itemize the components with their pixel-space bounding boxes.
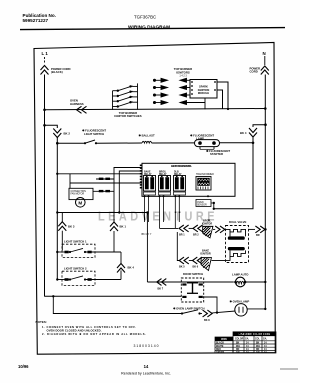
svg-text:WHITE: WHITE (216, 346, 224, 348)
connector chevron row1 a (179, 225, 189, 232)
header rule (20, 28, 285, 30)
svg-text:LINE WIRE COLOR CODE: LINE WIRE COLOR CODE (239, 332, 271, 336)
svg-text:LIGHT SWITCH: LIGHT SWITCH (84, 132, 104, 136)
svg-text:NOTES:: NOTES: (36, 320, 47, 324)
svg-text:RD: RD (236, 349, 240, 351)
EOC bottom terminal dots (144, 195, 210, 197)
connector chevron BK4b (120, 270, 122, 279)
diagram border frame (34, 43, 275, 355)
wire bake ignitor to valve (212, 260, 226, 262)
svg-text:RED: RED (216, 349, 221, 351)
convection fan motor box (69, 188, 93, 199)
svg-text:BK GY Y: BK GY Y (142, 233, 152, 236)
wire spark module to N bus (217, 82, 228, 110)
oven sensor (196, 200, 211, 207)
connector chevron lamp row (157, 279, 167, 286)
svg-text:FAN MOTOR: FAN MOTOR (71, 193, 85, 196)
svg-text:BK: BK (256, 343, 260, 345)
connector chevron BK4 (249, 128, 257, 137)
wire bottom feeder (45, 295, 182, 297)
svg-text:SENSOR: SENSOR (197, 205, 207, 207)
svg-text:BK 4: BK 4 (128, 266, 135, 270)
wire oven lamp to N (247, 308, 265, 310)
svg-text:BK: BK (236, 343, 240, 345)
connector chevron oven lamp (203, 310, 213, 317)
wire lamp out to BK2 tee (220, 142, 254, 144)
svg-text:LIGHT SWITCH 2: LIGHT SWITCH 2 (64, 267, 87, 271)
svg-text:✱ BALLAST: ✱ BALLAST (139, 134, 155, 138)
svg-text:✱ OVEN LAMP SWITCH: ✱ OVEN LAMP SWITCH (173, 307, 205, 311)
svg-text:OVEN DOOR CLOSED AND UNLOC: OVEN DOOR CLOSED AND UNLOCKED. (47, 328, 102, 332)
svg-text:LAMP AUTO: LAMP AUTO (232, 273, 249, 277)
svg-text:BK 6: BK 6 (193, 266, 199, 269)
svg-text:ELECTRONIC OVEN CONTROL: ELECTRONIC OVEN CONTROL (171, 165, 192, 168)
svg-text:WH: WH (236, 346, 240, 348)
svg-text:GA.: GA. (245, 338, 249, 341)
EOC left edge pin strip (140, 165, 142, 189)
svg-text:✱ OVEN LAMP: ✱ OVEN LAMP (230, 300, 250, 304)
svg-text:2. DIAGRAMS WITH ✱ DO NOT: 2. DIAGRAMS WITH ✱ DO NOT APPEAR IN ALL … (42, 332, 146, 336)
svg-text:WIRING DIAGRAM: WIRING DIAGRAM (128, 24, 170, 30)
svg-text:RD: RD (256, 349, 260, 351)
top burner ignitor electrodes (153, 78, 190, 104)
wire lamp to N (245, 281, 265, 283)
connector chevron oven bus (77, 106, 87, 113)
svg-text:BK 8: BK 8 (204, 319, 210, 322)
svg-text:COL: COL (255, 339, 260, 341)
svg-text:BLACK: BLACK (216, 342, 224, 345)
wire spark module lower to bus (217, 90, 223, 109)
svg-text:5995271227: 5995271227 (23, 18, 49, 23)
connector chevron L1 power cord (41, 66, 49, 75)
svg-text:BK 4: BK 4 (240, 131, 247, 135)
convection fan wires to EOC (57, 173, 141, 175)
motor M1 (76, 198, 86, 208)
connector chevron row1 d (255, 226, 265, 233)
wire LS2 out (85, 279, 121, 281)
wire row1 to N (249, 228, 256, 230)
EOC relay drop wires (145, 196, 180, 228)
connector chevron row1 b (193, 225, 203, 232)
svg-text:BK 7: BK 7 (158, 288, 164, 291)
wire lamp row (147, 281, 233, 283)
svg-text:WH: WH (256, 346, 260, 348)
electronic oven control box (142, 163, 235, 196)
svg-text:(BLACK): (BLACK) (51, 70, 63, 74)
connector chevron BK3 (61, 213, 63, 222)
wire main L1 bus (45, 109, 266, 110)
wire horizontal y212.5 (57, 212, 147, 214)
svg-text:MODULE: MODULE (198, 91, 210, 95)
svg-text:DUAL VALVE: DUAL VALVE (229, 220, 247, 224)
top burner ignitor switch bank (113, 83, 138, 110)
svg-text:GREEN: GREEN (216, 352, 225, 354)
wire chevron to fluor row junction (56, 138, 58, 144)
svg-text:N: N (263, 51, 266, 56)
connector chevron row1 c (215, 226, 225, 233)
svg-text:GN: GN (236, 352, 240, 354)
svg-text:10/96: 10/96 (18, 364, 29, 369)
svg-text:1 4 2 3: 1 4 2 3 (179, 75, 187, 78)
svg-text:STARTER: STARTER (210, 152, 223, 156)
bake valve solenoid (228, 247, 245, 250)
svg-text:DOOR SWITCH: DOOR SWITCH (183, 272, 203, 276)
svg-text:IGNITOR: IGNITOR (200, 252, 211, 255)
svg-text:318003140: 318003140 (134, 344, 160, 348)
svg-text:IGNITOR: IGNITOR (202, 223, 213, 226)
junction L1 to fluorescent branch (43, 124, 46, 127)
wire spark module bottom to bus (187, 102, 206, 104)
fluorescent light switch S2 (57, 142, 84, 144)
svg-text:L 1: L 1 (42, 51, 49, 56)
svg-text:BR 2: BR 2 (193, 234, 199, 237)
wire N jog to BK4 chevron (253, 125, 266, 127)
connector chevron BK2 fluorescent (53, 129, 61, 138)
connector chevron row2 b (193, 257, 203, 264)
wire to ballast (96, 142, 142, 144)
wire EOC pin to BK1 drop (114, 168, 142, 223)
wire L1 spine (44, 75, 46, 297)
connector chevron BK1 (110, 222, 118, 231)
svg-text:LEADVENTURE: LEADVENTURE (98, 210, 218, 224)
broil valve solenoid (226, 229, 246, 236)
svg-text:WIRE: WIRE (221, 339, 227, 341)
wire lamp feeder vertical (146, 213, 148, 283)
svg-text:IGNITOR SWITCHES: IGNITOR SWITCHES (114, 114, 141, 118)
svg-text:Rendered by LeadVenture, Inc.: Rendered by LeadVenture, Inc. (121, 372, 171, 376)
connector chevron N power cord (261, 66, 269, 75)
wire branch to fluorescent switch (45, 125, 58, 128)
svg-text:BK 1: BK 1 (120, 225, 127, 229)
svg-text:1. CONNECT OVEN WITH ALL: 1. CONNECT OVEN WITH ALL CONTROLS SET TO… (42, 325, 136, 329)
wire row1 left (160, 227, 179, 229)
wire spine C down (56, 143, 58, 279)
svg-text:BK 3: BK 3 (68, 225, 75, 229)
svg-text:HARNESS: HARNESS (70, 102, 84, 106)
spark ignition module U1 (190, 80, 217, 99)
wire N spine (264, 75, 266, 311)
svg-text:BK 2: BK 2 (64, 132, 71, 136)
wire EOC pin to junction drop (119, 171, 141, 213)
wire door switch to oven lamp row (203, 297, 217, 313)
wire branch to oven lamp switch (52, 295, 54, 297)
terminal pair upper (96, 178, 114, 180)
header publication number (23, 13, 56, 23)
svg-text:14: 14 (144, 364, 149, 369)
wire color code table (233, 332, 276, 336)
svg-text:TGF367BC: TGF367BC (134, 15, 156, 20)
terminal pair lower (93, 190, 114, 192)
svg-text:GA.: GA. (263, 338, 267, 341)
svg-text:LIGHT SWITCH 1: LIGHT SWITCH 1 (64, 240, 87, 244)
svg-text:COLOR: COLOR (235, 339, 244, 341)
wire row2 feeder (177, 232, 179, 261)
svg-text:BR 1: BR 1 (179, 234, 185, 237)
connector chevron row2 a (179, 257, 189, 264)
svg-text:BK 5: BK 5 (179, 266, 185, 269)
svg-text:GN: GN (256, 352, 260, 354)
svg-text:CORD: CORD (250, 70, 258, 74)
svg-text:M: M (78, 200, 82, 205)
wire right drop to EOC row (214, 143, 253, 209)
svg-text:TRANSFORMER: TRANSFORMER (196, 173, 214, 176)
svg-text:BR: BR (256, 234, 260, 237)
wire ballast to lamp (152, 142, 195, 144)
svg-text:OVEN: OVEN (197, 202, 204, 204)
